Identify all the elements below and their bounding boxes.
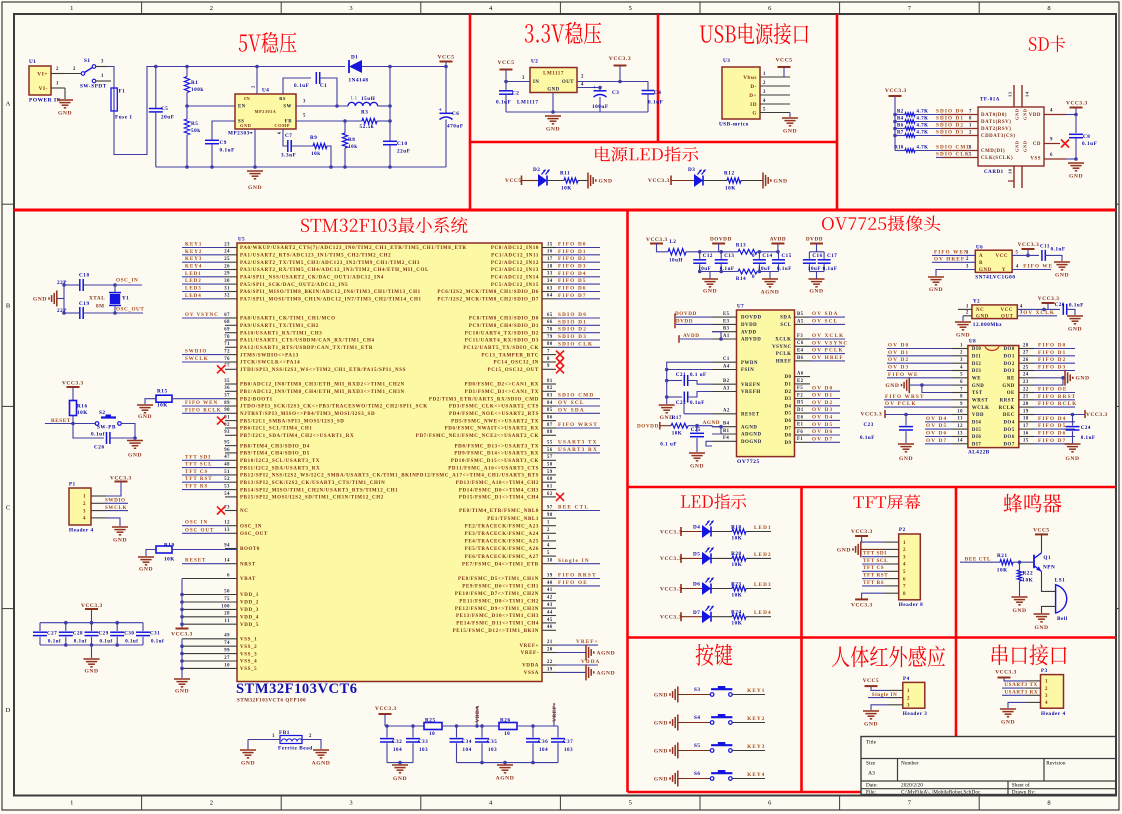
svg-text:L1: L1 xyxy=(351,95,358,101)
ground GND below VSS bus xyxy=(174,678,190,680)
svg-text:FIFO RRST: FIFO RRST xyxy=(1038,394,1076,400)
node xyxy=(665,368,669,372)
svg-text:C8: C8 xyxy=(1083,134,1090,140)
node xyxy=(893,120,897,124)
ground AGND at VREF- xyxy=(585,645,587,661)
node xyxy=(180,622,184,626)
svg-text:TFT SCL: TFT SCL xyxy=(185,463,213,468)
svg-text:TFT SDI: TFT SDI xyxy=(863,551,887,557)
svg-text:R22: R22 xyxy=(1023,571,1034,577)
capacitor C10 xyxy=(383,140,397,142)
svg-text:PC13_TAMPER_RTC: PC13_TAMPER_RTC xyxy=(481,353,539,358)
svg-text:2: 2 xyxy=(966,311,969,316)
svg-text:PE15/FSMC_D12<>TIM1_BKIN: PE15/FSMC_D12<>TIM1_BKIN xyxy=(453,629,539,634)
svg-text:1: 1 xyxy=(903,541,906,546)
svg-text:D7: D7 xyxy=(784,426,791,431)
node xyxy=(210,165,214,169)
svg-text:22: 22 xyxy=(1023,387,1029,392)
node xyxy=(180,659,184,663)
net label FIFO_RCLK xyxy=(182,412,225,414)
svg-text:PE12/FSMC_D9<>TIM1_CH3N: PE12/FSMC_D9<>TIM1_CH3N xyxy=(455,607,539,612)
net label OV_D5 xyxy=(810,427,840,429)
mcu pin 89 xyxy=(225,405,237,407)
svg-text:XTAL: XTAL xyxy=(89,295,105,301)
transistor Q1 NPN xyxy=(1033,555,1035,569)
svg-text:VCC3.3: VCC3.3 xyxy=(648,178,670,184)
mcu pin 5 xyxy=(542,555,556,557)
svg-text:10K: 10K xyxy=(77,410,88,416)
svg-text:C32: C32 xyxy=(392,740,402,745)
svg-text:PD9/FSMC_D14<>USART3_RX: PD9/FSMC_D14<>USART3_RX xyxy=(454,452,539,457)
svg-text:0.1uF: 0.1uF xyxy=(1051,248,1066,253)
net label TFT_SCL xyxy=(182,467,225,469)
svg-text:10: 10 xyxy=(957,409,963,414)
svg-text:4: 4 xyxy=(581,83,584,88)
svg-text:17: 17 xyxy=(547,257,553,262)
mcu pin 30 xyxy=(225,283,237,285)
svg-text:R1: R1 xyxy=(191,80,198,86)
net label KEY2 xyxy=(182,254,225,256)
resistor R24 10K xyxy=(732,614,746,619)
mcu pin VSS_5 xyxy=(182,667,237,669)
svg-text:6: 6 xyxy=(960,380,963,385)
node xyxy=(385,724,389,728)
svg-text:VCC: VCC xyxy=(1001,308,1013,313)
wire EN xyxy=(187,105,235,107)
resistor R3 52.5k xyxy=(362,118,377,123)
svg-text:ADVDD: ADVDD xyxy=(741,338,761,343)
U7 pin A3 xyxy=(712,391,737,393)
wire VCC5 to U2 IN xyxy=(506,81,530,83)
wire P4 pin3 to GND xyxy=(871,705,888,710)
svg-text:VCC3.3: VCC3.3 xyxy=(660,529,682,535)
resistor R14 0 xyxy=(738,269,757,274)
net label OSC_IN xyxy=(182,525,225,527)
node xyxy=(180,615,184,619)
svg-text:88: 88 xyxy=(547,430,553,435)
mcu pin VSS_4 xyxy=(182,660,237,662)
svg-text:DO3: DO3 xyxy=(1003,369,1014,374)
svg-text:C9: C9 xyxy=(220,140,227,146)
svg-text:U6: U6 xyxy=(976,246,983,251)
fifo U8 AL422B xyxy=(968,346,1019,448)
svg-text:AVDD: AVDD xyxy=(770,237,787,243)
svg-text:Single IN: Single IN xyxy=(558,558,590,564)
svg-text:OV7725: OV7725 xyxy=(737,459,760,465)
svg-text:E4: E4 xyxy=(797,349,804,354)
node xyxy=(719,270,723,274)
U8 pin 25 DO3 xyxy=(1019,370,1034,372)
title buzzer xyxy=(1004,494,1022,513)
svg-text:AGND: AGND xyxy=(597,650,616,656)
svg-text:TFT CS: TFT CS xyxy=(185,470,208,475)
mcu pin VSS_1 xyxy=(182,638,237,640)
svg-text:DOVDD: DOVDD xyxy=(637,424,659,430)
node xyxy=(185,65,189,69)
svg-text:D2: D2 xyxy=(533,167,540,173)
svg-text:D1: D1 xyxy=(351,54,358,60)
svg-text:69: 69 xyxy=(224,328,230,333)
svg-text:15: 15 xyxy=(1023,439,1029,444)
svg-text:C19: C19 xyxy=(79,301,90,307)
svg-text:S1: S1 xyxy=(84,58,91,64)
svg-text:13: 13 xyxy=(1008,91,1013,97)
U3 pin stubs xyxy=(760,76,790,78)
net label FIFO_RRST xyxy=(556,578,600,580)
svg-text:FIFO D6: FIFO D6 xyxy=(558,286,587,292)
svg-text:C1: C1 xyxy=(723,357,730,362)
svg-text:PB0/ADC12_IN8/TIM8_CH3/ETH_MII: PB0/ADC12_IN8/TIM8_CH3/ETH_MII_RXD2<>TIM… xyxy=(240,383,405,388)
svg-text:CLK(SCLK): CLK(SCLK) xyxy=(981,156,1013,161)
svg-text:RESET: RESET xyxy=(51,418,71,424)
svg-text:PB11/I2C2_SDA/USART3_RX: PB11/I2C2_SDA/USART3_RX xyxy=(240,466,320,471)
svg-text:OV D0: OV D0 xyxy=(888,343,909,349)
svg-text:LED3: LED3 xyxy=(185,287,202,292)
svg-text:5: 5 xyxy=(303,114,306,119)
mcu pin 29 xyxy=(225,276,237,278)
svg-text:C17: C17 xyxy=(827,254,837,259)
svg-text:30: 30 xyxy=(224,279,230,284)
svg-text:D1: D1 xyxy=(784,383,791,388)
svg-text:14: 14 xyxy=(1025,91,1030,97)
svg-text:JTDO/SPI3_SCK/I2S3_CK<>PB3/TRA: JTDO/SPI3_SCK/I2S3_CK<>PB3/TRACESWO/TIM2… xyxy=(240,405,428,410)
power VCC5 xyxy=(440,61,453,63)
svg-text:G: G xyxy=(752,110,757,116)
svg-text:6: 6 xyxy=(903,577,906,582)
svg-text:3: 3 xyxy=(969,146,972,151)
svg-text:48: 48 xyxy=(224,463,230,468)
node xyxy=(411,724,415,728)
svg-text:2: 2 xyxy=(903,548,906,553)
svg-text:SW-SPDT: SW-SPDT xyxy=(80,84,107,90)
svg-text:PC11/UART4_RX/SDIO_D3: PC11/UART4_RX/SDIO_D3 xyxy=(465,339,539,344)
ground GND below R22 xyxy=(1012,596,1028,598)
svg-text:PC3/ADC12_IN13: PC3/ADC12_IN13 xyxy=(491,268,539,273)
svg-text:GND: GND xyxy=(837,547,851,553)
wire xyxy=(711,616,732,618)
svg-text:AGND: AGND xyxy=(597,670,616,676)
svg-text:PC6/I2S2_MCK/TIM8_CH1/SDIO_D6: PC6/I2S2_MCK/TIM8_CH1/SDIO_D6 xyxy=(437,290,539,295)
svg-text:GND: GND xyxy=(58,110,72,116)
svg-text:10: 10 xyxy=(224,663,230,668)
svg-text:PA2/USART2_TX/TIM5_CH3/ADC123_: PA2/USART2_TX/TIM5_CH3/ADC123_IN2/TIM9_C… xyxy=(240,261,420,266)
svg-text:PC9/TIM8_CH4/SDIO_D1: PC9/TIM8_CH4/SDIO_D1 xyxy=(469,324,539,329)
mcu pin 86 xyxy=(542,420,556,422)
svg-text:C33: C33 xyxy=(418,740,428,745)
svg-text:FIFO OE: FIFO OE xyxy=(1038,387,1068,393)
svg-text:PC12/UART5_TX/SDIO_CK: PC12/UART5_TX/SDIO_CK xyxy=(463,346,539,351)
net label OV_D0 xyxy=(887,348,952,350)
svg-text:10K: 10K xyxy=(997,567,1008,573)
U7 pin A2 xyxy=(712,413,737,415)
svg-text:103: 103 xyxy=(488,748,497,753)
U2 OUT pin 2 wire xyxy=(577,81,648,83)
mcu pin 73 xyxy=(225,510,237,512)
no connect X xyxy=(556,365,564,373)
net label FIFO_WE xyxy=(887,377,952,379)
mcu pin 62 xyxy=(542,496,556,498)
svg-text:PCLK: PCLK xyxy=(776,352,792,357)
svg-text:22: 22 xyxy=(547,660,553,665)
node xyxy=(698,270,702,274)
net label OV_PCLK xyxy=(884,406,952,408)
svg-text:VCC: VCC xyxy=(996,254,1008,259)
svg-text:C20: C20 xyxy=(1055,303,1065,308)
CARD1 top pins 13 14 xyxy=(1013,85,1015,107)
wire analog top rail 3 xyxy=(517,725,558,727)
mcu pin 97 xyxy=(542,510,556,512)
svg-text:5: 5 xyxy=(1016,250,1019,255)
net label USART3_TX xyxy=(1002,687,1026,689)
wire filter top rail xyxy=(686,251,738,253)
U7 pin A4 xyxy=(712,369,737,371)
svg-text:VREF+: VREF+ xyxy=(552,702,558,722)
svg-text:28: 28 xyxy=(224,612,230,617)
capacitor C12 10uF xyxy=(699,252,701,259)
svg-text:3: 3 xyxy=(547,536,550,541)
ground GND below bell xyxy=(1034,613,1050,615)
svg-text:SDIO D0: SDIO D0 xyxy=(558,312,587,318)
svg-text:R26: R26 xyxy=(500,717,511,723)
wire R15 to GND xyxy=(145,399,156,404)
svg-text:FIFO WRST: FIFO WRST xyxy=(558,422,598,428)
svg-text:DAT2(RSV): DAT2(RSV) xyxy=(981,127,1011,132)
svg-text:R3: R3 xyxy=(361,109,368,115)
crystal Y1 XTAL 8M xyxy=(114,285,116,292)
svg-text:92: 92 xyxy=(224,423,230,428)
net label FIFO_WEN at U6 xyxy=(932,254,975,256)
wire VCC5 to P4 pin1 xyxy=(871,686,888,690)
svg-text:47: 47 xyxy=(224,455,230,460)
svg-text:12: 12 xyxy=(224,521,230,526)
svg-text:28: 28 xyxy=(1023,343,1029,348)
ground GND at S5 xyxy=(669,749,671,751)
svg-text:Ferrite Bead: Ferrite Bead xyxy=(278,745,313,751)
mcu pin 93 xyxy=(225,434,237,436)
net label TFT_RS xyxy=(862,585,884,587)
svg-text:A2: A2 xyxy=(723,409,730,414)
mcu pin 71 xyxy=(225,346,237,348)
svg-text:D1: D1 xyxy=(797,408,804,413)
svg-text:U4: U4 xyxy=(262,87,269,93)
ground GND USB xyxy=(782,117,798,119)
net label SDIO_CLK xyxy=(556,346,600,348)
svg-text:PC4/ADC12_IN14: PC4/ADC12_IN14 xyxy=(491,276,539,281)
U7 pin E3 xyxy=(712,323,737,325)
svg-text:PA0/WKUP/USART2_CTS(7)/ADC123_: PA0/WKUP/USART2_CTS(7)/ADC123_IN0/TIM2_C… xyxy=(240,246,467,251)
U6 VCC pin 5 wire xyxy=(1012,254,1039,256)
svg-text:GND: GND xyxy=(128,452,142,458)
svg-text:S3: S3 xyxy=(694,687,701,693)
node xyxy=(531,724,535,728)
wire xyxy=(681,588,702,590)
svg-text:4: 4 xyxy=(1045,701,1048,706)
svg-text:GND: GND xyxy=(654,720,668,726)
svg-text:C31: C31 xyxy=(150,632,160,637)
no connect X xyxy=(556,351,564,359)
svg-text:VI+: VI+ xyxy=(37,71,48,77)
svg-text:B4: B4 xyxy=(723,422,730,427)
svg-text:C5: C5 xyxy=(161,106,168,112)
svg-text:0.1uF: 0.1uF xyxy=(823,267,838,272)
ground GND below C8 xyxy=(1068,162,1084,164)
svg-text:SCL: SCL xyxy=(780,323,791,328)
svg-text:OV D2: OV D2 xyxy=(888,357,909,363)
svg-text:22P: 22P xyxy=(57,308,67,314)
net label SDIO_D3 xyxy=(556,339,600,341)
svg-text:PD11/FSMC_A16<>USART3_CTS: PD11/FSMC_A16<>USART3_CTS xyxy=(448,466,539,471)
svg-text:JTMS/SWDIO<>PA13: JTMS/SWDIO<>PA13 xyxy=(240,353,299,358)
ground GND below P3 xyxy=(1000,708,1016,710)
svg-text:GND: GND xyxy=(972,384,984,389)
svg-text:DI6: DI6 xyxy=(972,435,981,440)
svg-text:VREF+: VREF+ xyxy=(519,644,539,649)
svg-text:40: 40 xyxy=(547,581,553,586)
svg-text:PA7/SPI1_MOSI/TIM8_CH1N/ADC12_: PA7/SPI1_MOSI/TIM8_CH1N/ADC12_IN7/TIM3_C… xyxy=(240,298,422,303)
svg-text:PB9/TIM4_CH4/SDIO_D5: PB9/TIM4_CH4/SDIO_D5 xyxy=(240,452,310,457)
capacitor C11 0.1uF xyxy=(1041,250,1043,261)
ground GND at R15 xyxy=(137,404,153,406)
svg-text:3: 3 xyxy=(960,358,963,363)
wire xyxy=(915,150,941,152)
svg-text:PA8/USART1_CK/TIM1_CH1/MCO: PA8/USART1_CK/TIM1_CH1/MCO xyxy=(240,317,336,322)
node xyxy=(665,379,669,383)
net label LED3 xyxy=(746,588,771,590)
svg-text:R4: R4 xyxy=(897,116,904,121)
wire B3 tie to A1 xyxy=(712,332,721,339)
svg-text:FIFO D2: FIFO D2 xyxy=(1038,357,1066,363)
svg-text:0.1uf: 0.1uf xyxy=(91,431,105,437)
svg-text:Size: Size xyxy=(866,760,876,766)
node xyxy=(388,65,392,69)
node xyxy=(455,724,459,728)
svg-text:10K: 10K xyxy=(157,402,168,408)
svg-text:B3: B3 xyxy=(723,327,730,332)
svg-text:0.1uf: 0.1uf xyxy=(151,640,164,645)
wire R21 to base xyxy=(1013,561,1034,563)
svg-text:4: 4 xyxy=(83,517,86,522)
node xyxy=(531,761,535,765)
node xyxy=(185,104,189,108)
U8 pin 21 RRST xyxy=(1019,399,1034,401)
wire VSS bus xyxy=(181,639,183,678)
mcu pin 23 xyxy=(225,247,237,249)
ground GND below C23 xyxy=(898,443,914,445)
U8 pin 17 DO5 xyxy=(1019,428,1034,430)
ground AGND filter2 xyxy=(769,272,771,279)
node xyxy=(480,724,484,728)
net label OV_D7 xyxy=(810,441,840,443)
svg-text:FIFO D3: FIFO D3 xyxy=(558,264,587,270)
wire VCC3.3 drop xyxy=(384,714,386,726)
svg-text:C6: C6 xyxy=(797,341,804,346)
svg-text:SW: SW xyxy=(283,105,292,110)
capacitor C24 0.1uF xyxy=(1072,415,1074,426)
capacitor C2 xyxy=(499,90,513,92)
svg-text:CD: CD xyxy=(1033,142,1041,147)
svg-text:C37: C37 xyxy=(563,740,573,745)
net label USART3_TX xyxy=(556,445,600,447)
svg-text:D6: D6 xyxy=(693,582,700,588)
wire VCC5 to Q1 collector xyxy=(1041,534,1043,552)
net label OV_D3 xyxy=(887,370,952,372)
wire SS to C9 xyxy=(212,121,235,140)
svg-text:10K: 10K xyxy=(672,432,683,437)
svg-text:E2: E2 xyxy=(797,379,804,384)
svg-text:20: 20 xyxy=(1023,402,1029,407)
svg-text:Sheet of: Sheet of xyxy=(1012,782,1030,789)
svg-text:A3: A3 xyxy=(723,386,730,391)
net label FIFO_D2 xyxy=(556,261,600,263)
no connect X xyxy=(556,493,564,501)
wire xyxy=(711,588,732,590)
svg-text:A4: A4 xyxy=(723,364,730,369)
svg-text:50k: 50k xyxy=(191,128,201,134)
svg-text:CDDAT3(CS): CDDAT3(CS) xyxy=(981,134,1015,139)
net label VDDA vertical xyxy=(476,706,478,726)
svg-text:1: 1 xyxy=(969,124,972,129)
node xyxy=(113,311,117,315)
node xyxy=(90,621,94,625)
power VCC3.3 xyxy=(614,65,627,67)
svg-text:SDIO D3: SDIO D3 xyxy=(558,334,587,340)
capacitor C1 xyxy=(315,72,317,84)
svg-text:11: 11 xyxy=(957,417,963,422)
ground AGND analog B xyxy=(504,763,506,764)
svg-text:DI5: DI5 xyxy=(972,428,981,433)
svg-text:FIFO RCLK: FIFO RCLK xyxy=(1038,401,1077,407)
ground GND below P4 xyxy=(863,710,879,712)
svg-text:27: 27 xyxy=(1023,351,1029,356)
mcu pin 57 xyxy=(542,459,556,461)
svg-text:4.7K: 4.7K xyxy=(917,130,929,135)
wire xyxy=(915,114,941,116)
net label SDIO_D2 xyxy=(556,332,600,334)
svg-text:SWCLK: SWCLK xyxy=(105,505,127,511)
title SD card xyxy=(1029,37,1037,51)
mcu pin 65 xyxy=(542,317,556,319)
wire VDD bus xyxy=(181,579,183,629)
net label FIFO_OE xyxy=(1034,392,1075,394)
svg-text:1: 1 xyxy=(70,5,73,12)
svg-text:10: 10 xyxy=(504,731,510,737)
U8 pin 19 DEC xyxy=(1019,414,1034,416)
svg-text:0.1uF: 0.1uF xyxy=(1082,141,1097,147)
capacitor C23 0.1uF xyxy=(905,415,907,426)
node xyxy=(255,65,259,69)
U8 pin 18 DO4 xyxy=(1019,421,1034,423)
wire xyxy=(915,128,941,130)
svg-text:PD5/FSMC_NWE<>USART2_TX: PD5/FSMC_NWE<>USART2_TX xyxy=(451,419,539,424)
net label FIFO_D7 xyxy=(556,298,600,300)
svg-text:GND: GND xyxy=(1076,376,1090,382)
title power LED xyxy=(595,146,610,161)
capacitor C14 10uF xyxy=(758,252,760,259)
svg-text:55: 55 xyxy=(547,441,553,446)
node xyxy=(665,395,669,399)
svg-text:R5: R5 xyxy=(191,121,198,127)
node xyxy=(154,65,158,69)
svg-text:PE4/TRACECK/FSMC_A25: PE4/TRACECK/FSMC_A25 xyxy=(465,540,539,545)
wire xyxy=(711,531,732,533)
svg-text:3: 3 xyxy=(101,60,104,65)
node xyxy=(893,134,897,138)
net label SDIO_D1 xyxy=(556,324,600,326)
mcu pin 82 xyxy=(542,390,556,392)
svg-text:DOVDD: DOVDD xyxy=(710,237,732,243)
mcu pin 77 xyxy=(225,368,237,370)
mcu pin 87 xyxy=(542,427,556,429)
